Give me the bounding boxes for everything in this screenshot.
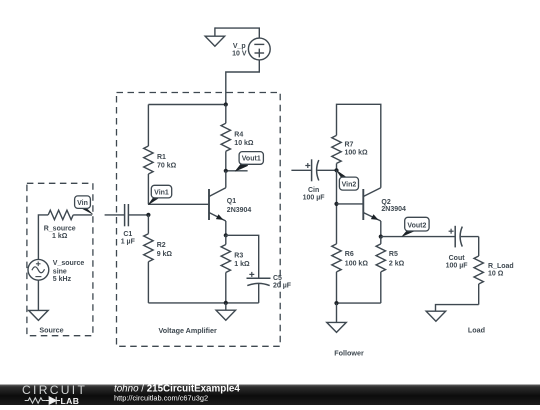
- ground (amplifier): [216, 303, 236, 320]
- svg-text:C5: C5: [273, 275, 282, 282]
- label Vin: [75, 196, 93, 214]
- wire (V_source to ground): [37, 280, 39, 310]
- svg-text:10 Ω: 10 Ω: [488, 271, 504, 278]
- wire (amplifier top rail): [148, 104, 225, 106]
- ground (V_p supply): [205, 27, 225, 46]
- svg-text:70 kΩ: 70 kΩ: [157, 163, 177, 170]
- resistor R3: [221, 235, 230, 303]
- plus sign C5: [249, 272, 254, 277]
- label C1 1 uF: [121, 231, 136, 246]
- svg-text:R1: R1: [157, 154, 166, 161]
- svg-text:R4: R4: [234, 132, 243, 139]
- svg-text:1 kΩ: 1 kΩ: [234, 261, 250, 268]
- label Q2 2N3904: [381, 199, 406, 213]
- node (Q2 emitter junction): [379, 235, 383, 239]
- label R2 9 kOhm: [157, 242, 173, 258]
- label R1 70 kOhm: [157, 154, 177, 170]
- node (rail junction): [224, 102, 228, 106]
- wire (Vin2 node down to base tee): [336, 170, 338, 244]
- svg-text:1 µF: 1 µF: [121, 239, 136, 246]
- label Q1 2N3904: [227, 198, 252, 214]
- svg-text:R5: R5: [389, 251, 398, 258]
- footer url: [114, 394, 208, 403]
- svg-text:Cin: Cin: [308, 187, 319, 194]
- label R5 2 kOhm: [389, 251, 405, 268]
- resistor R6: [332, 244, 341, 303]
- resistor R5: [376, 237, 385, 304]
- svg-text:R2: R2: [157, 242, 166, 249]
- resistor R4: [221, 105, 230, 171]
- capacitor C1: [125, 204, 149, 226]
- svg-text:R_source: R_source: [44, 225, 76, 232]
- logo CIRCUIT text: [22, 383, 87, 397]
- svg-text:R6: R6: [345, 251, 354, 258]
- resistor R1: [144, 105, 153, 205]
- svg-text:V_source: V_source: [53, 260, 85, 267]
- node (Q2 base tee): [334, 202, 338, 206]
- node (follower bottom junction): [334, 301, 338, 305]
- resistor R_source: [38, 210, 92, 259]
- label C5 20 uF: [273, 275, 292, 290]
- ground (load): [426, 311, 446, 321]
- ground (follower): [327, 303, 347, 332]
- wire (follower top rail): [337, 104, 381, 187]
- svg-text:Vout2: Vout2: [407, 222, 426, 229]
- footer bar: [0, 385, 540, 406]
- label R4 10 kOhm: [234, 132, 254, 148]
- svg-text:LAB: LAB: [61, 396, 80, 405]
- svg-text:R_Load: R_Load: [488, 263, 514, 270]
- svg-text:9 kΩ: 9 kΩ: [157, 251, 173, 258]
- svg-text:1 kΩ: 1 kΩ: [52, 233, 68, 240]
- capacitor C5: [247, 278, 271, 303]
- plus sign Cout: [449, 229, 454, 234]
- ground (source): [29, 310, 49, 320]
- wire (follower bottom rail): [337, 302, 381, 304]
- wire (Q2 emitter to Cout): [381, 236, 455, 238]
- wire (load bottom): [436, 305, 479, 312]
- node Vout1 stub: [224, 169, 248, 173]
- transistor Q1: [209, 171, 226, 236]
- voltage source V_p: [248, 38, 270, 60]
- text Load: [468, 326, 485, 335]
- node (bottom rail junction): [224, 301, 228, 305]
- svg-text:Q2: Q2: [381, 199, 390, 206]
- wire (Q1 base): [148, 203, 209, 205]
- svg-text:100 kΩ: 100 kΩ: [345, 149, 369, 156]
- label Cout 100 uF: [446, 255, 469, 270]
- label Vout1: [235, 152, 263, 172]
- svg-text:sine: sine: [53, 268, 67, 275]
- svg-text:100 kΩ: 100 kΩ: [345, 261, 369, 268]
- label R6 100 kOhm: [345, 251, 369, 268]
- svg-text:C1: C1: [123, 231, 132, 238]
- wire (amplifier bottom rail): [148, 302, 258, 304]
- label V_source sine 5 kHz: [53, 260, 85, 283]
- footer title tohno / 215CircuitExample4: [114, 383, 240, 394]
- label R3 1 kOhm: [234, 253, 250, 269]
- voltage source V_source: [28, 259, 49, 280]
- label Vout2: [402, 217, 429, 236]
- wire (ground to V_p top): [215, 28, 259, 38]
- logo diode symbol: [46, 397, 60, 404]
- svg-text:R3: R3: [234, 253, 243, 260]
- node (Cin / R7 junction): [334, 168, 338, 172]
- svg-text:20 µF: 20 µF: [273, 283, 292, 290]
- svg-text:5 kHz: 5 kHz: [53, 276, 72, 283]
- svg-text:Follower: Follower: [334, 349, 364, 358]
- resistor R2: [144, 215, 153, 303]
- svg-text:100 µF: 100 µF: [303, 195, 326, 202]
- svg-text:2 kΩ: 2 kΩ: [389, 261, 405, 268]
- svg-text:http://circuitlab.com/c67u3g2: http://circuitlab.com/c67u3g2: [114, 394, 208, 403]
- wire (emitter to C5): [226, 235, 259, 278]
- logo LAB text: [61, 396, 80, 406]
- label R_source 1 kOhm: [44, 225, 76, 240]
- svg-text:Vin2: Vin2: [342, 182, 357, 189]
- node (C1 / R1 / R2 junction): [146, 213, 150, 217]
- capacitor Cin: [312, 159, 337, 181]
- dashed box Voltage Amplifier: [117, 93, 281, 347]
- svg-text:Voltage Amplifier: Voltage Amplifier: [159, 326, 218, 335]
- svg-text:2N3904: 2N3904: [381, 206, 406, 213]
- wire (input stub to Cin): [291, 169, 311, 171]
- resistor R7: [332, 135, 341, 170]
- svg-text:Vin: Vin: [77, 200, 88, 207]
- capacitor Cout: [455, 226, 479, 248]
- label V_p 10 V: [232, 43, 247, 58]
- svg-text:R7: R7: [345, 142, 354, 149]
- resistor R_Load: [474, 237, 483, 305]
- text Source: [39, 326, 63, 335]
- svg-text:Vin1: Vin1: [154, 189, 169, 196]
- label Vin1: [148, 185, 172, 205]
- label Vin2: [337, 170, 359, 190]
- node (Q1 emitter junction): [224, 233, 228, 237]
- dashed box Source: [27, 183, 93, 335]
- wire (V_p bottom to amplifier rail): [226, 60, 259, 105]
- svg-text:10 V: 10 V: [232, 51, 247, 58]
- logo resistor squiggle: [25, 398, 46, 403]
- text Follower: [334, 349, 364, 358]
- plus sign Cin: [305, 163, 310, 168]
- text Voltage Amplifier: [159, 326, 218, 335]
- wire (Q2 base): [337, 203, 364, 205]
- svg-text:Source: Source: [39, 326, 63, 335]
- svg-text:V_p: V_p: [233, 43, 246, 50]
- svg-text:Cout: Cout: [449, 255, 466, 262]
- label R7 100 kOhm: [345, 142, 369, 157]
- label Cin 100 uF: [303, 187, 326, 202]
- svg-text:Vout1: Vout1: [242, 156, 261, 163]
- svg-text:100 µF: 100 µF: [446, 263, 469, 270]
- label R_Load 10 Ohm: [488, 263, 514, 278]
- transistor Q2: [363, 188, 381, 237]
- svg-text:Q1: Q1: [227, 198, 236, 205]
- svg-text:10 kΩ: 10 kΩ: [234, 140, 254, 147]
- svg-text:Load: Load: [468, 326, 485, 335]
- wire (input to C1): [105, 214, 125, 216]
- svg-text:2N3904: 2N3904: [227, 207, 252, 214]
